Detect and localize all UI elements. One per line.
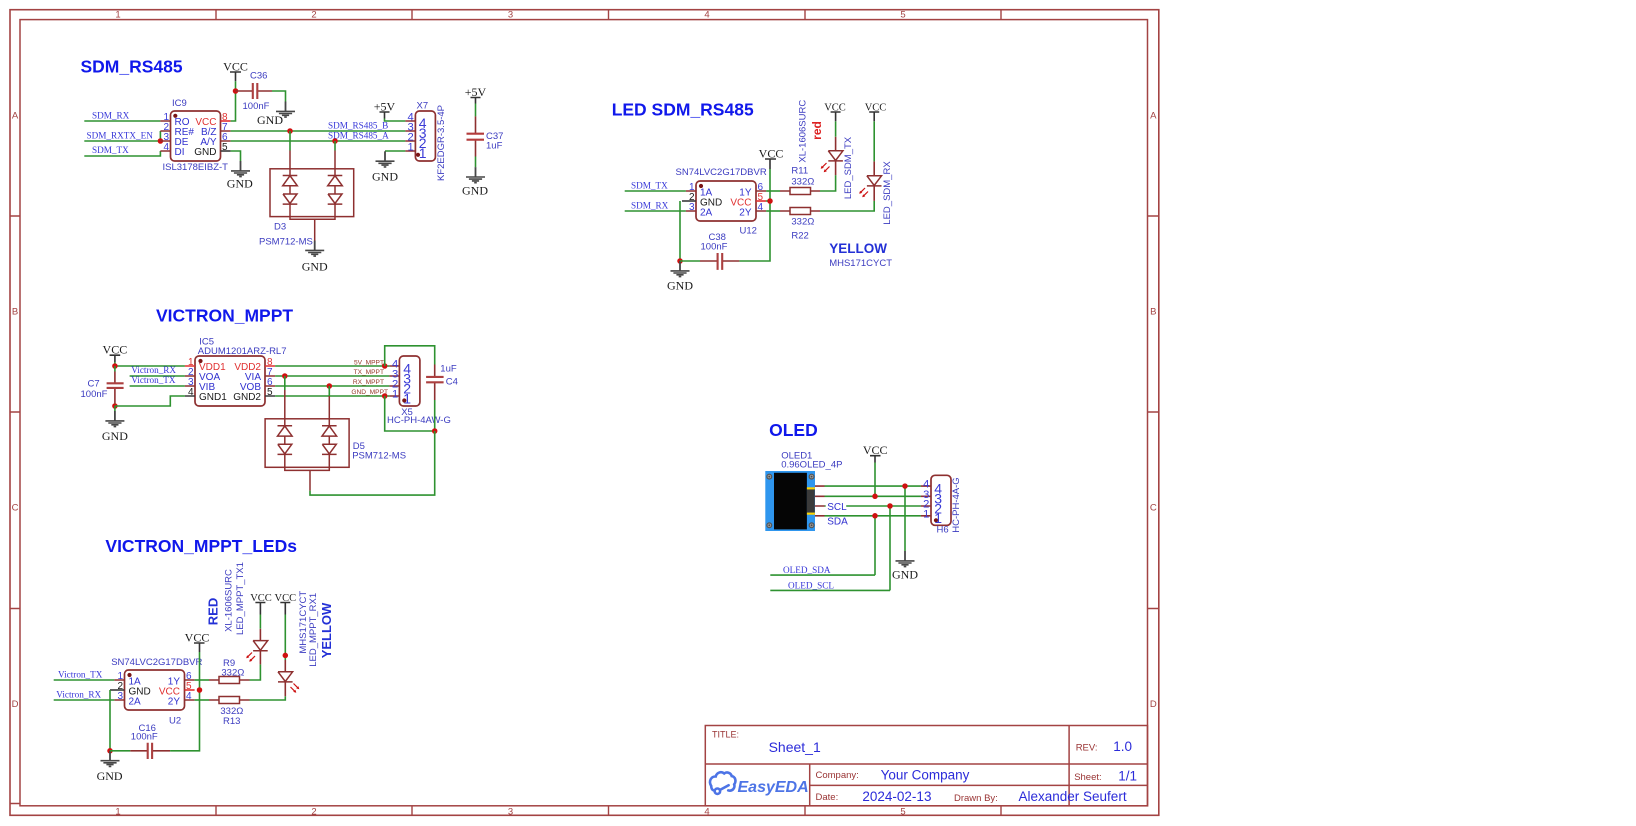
svg-text:1: 1 (403, 390, 411, 406)
wire D5 to gnd loop (310, 431, 435, 495)
svg-text:1/1: 1/1 (1118, 768, 1137, 783)
resistor R11 (780, 188, 820, 195)
svg-text:1: 1 (115, 10, 120, 21)
wire VCC to IC5 pin1 (115, 362, 185, 366)
svg-text:3: 3 (508, 807, 513, 818)
power VCC above LED2 (865, 103, 887, 122)
U12 pin names (700, 187, 752, 218)
ground C7 (102, 406, 128, 443)
svg-text:Victron_TX: Victron_TX (131, 375, 176, 385)
svg-text:Victron_RX: Victron_RX (131, 365, 176, 375)
svg-text:Your Company: Your Company (881, 767, 970, 782)
resistor R13 (209, 697, 250, 704)
wire 2Y to R13 (195, 699, 209, 701)
svg-text:GND: GND (257, 113, 283, 127)
wire OLED_SDA (770, 574, 875, 576)
svg-text:GND: GND (892, 568, 918, 582)
svg-text:DI: DI (175, 147, 185, 158)
svg-text:SDM_TX: SDM_TX (631, 181, 668, 191)
power VCC OLED (863, 443, 888, 463)
svg-text:C4: C4 (446, 377, 458, 388)
ground OLED (892, 551, 918, 582)
svg-text:100nF: 100nF (701, 242, 728, 253)
svg-text:SN74LVC2G17DBVR: SN74LVC2G17DBVR (111, 657, 202, 668)
U2 pin numbers (117, 671, 192, 702)
svg-text:Drawn By:: Drawn By: (954, 793, 998, 804)
svg-text:5: 5 (900, 10, 905, 21)
svg-text:100nF: 100nF (131, 732, 158, 743)
junction TX/D5 (282, 373, 288, 379)
U2 pin names (129, 676, 181, 707)
EasyEDA logo cloud (710, 772, 735, 794)
junction RX/D5 (327, 383, 333, 389)
ground X7 pin1 (372, 151, 398, 183)
power VCC above LED1 (824, 103, 846, 122)
net label SCL (826, 502, 847, 514)
svg-text:IC9: IC9 (172, 98, 187, 109)
ground C36 (257, 102, 295, 128)
wire R22 to LED2 (820, 201, 874, 211)
junction at IC9 pin3 (158, 138, 164, 144)
svg-text:REV:: REV: (1076, 743, 1098, 754)
svg-text:Victron_TX: Victron_TX (58, 670, 103, 680)
svg-text:X7: X7 (417, 101, 429, 112)
H6 pin numbers inside (934, 480, 942, 526)
svg-text:LED SDM_RS485: LED SDM_RS485 (612, 100, 754, 120)
outer border frame (10, 10, 1159, 816)
wire SDM_RXTX_EN (84, 140, 160, 142)
power +5V above X7 (374, 100, 396, 119)
ground IC9 pin5 (227, 161, 253, 191)
wire C4 to GND_MPPT (385, 396, 435, 431)
wire OLED pin3 row (825, 495, 921, 497)
svg-text:B: B (1150, 307, 1156, 318)
junction U2 gnd (107, 748, 113, 754)
ground U12 (667, 261, 693, 293)
power VCC above IC9 (223, 60, 248, 82)
wire GND vertical (904, 486, 906, 551)
wire SDM_RX to U12 (625, 210, 686, 212)
LED LED_SDM_RX MHS171CYCT (859, 161, 881, 201)
junction SDA row1 (872, 513, 878, 519)
svg-text:4: 4 (163, 142, 169, 153)
wire +5V to X7 pin4 (385, 119, 406, 122)
svg-text:5V_MPPT: 5V_MPPT (354, 359, 384, 366)
IC IC9 body ISL3178EIBZ-T (160, 111, 230, 161)
svg-text:LED_SDM_RX: LED_SDM_RX (882, 161, 893, 225)
wire SDM_RS485_A (231, 140, 406, 142)
svg-text:SDM_RXTX_EN: SDM_RXTX_EN (87, 131, 154, 141)
svg-text:GND: GND (194, 147, 216, 158)
svg-text:GND: GND (667, 279, 693, 293)
ground C37 (462, 167, 488, 197)
svg-text:GND: GND (227, 177, 253, 191)
diode D3 PSM712-MS TVS array (270, 151, 354, 241)
wire 5V to C4 (385, 346, 435, 366)
IC9 pin numbers (163, 112, 228, 153)
svg-text:2Y: 2Y (168, 696, 181, 707)
svg-text:MHS171CYCT: MHS171CYCT (829, 258, 892, 269)
capacitor C4 (426, 365, 444, 401)
IC U12 body (682, 181, 766, 221)
IC U2 body (110, 670, 195, 710)
svg-text:HC-PH-4AW-G: HC-PH-4AW-G (387, 415, 451, 426)
wire LED2 to VCC (284, 615, 286, 661)
capacitor C7 (107, 366, 124, 406)
wire D3 branch A (334, 141, 336, 151)
junction 5V/C4 (382, 363, 388, 369)
svg-text:4: 4 (758, 202, 764, 213)
resistor R22 (780, 208, 820, 215)
resistor R9 (209, 677, 250, 684)
svg-text:Victron_RX: Victron_RX (56, 690, 101, 700)
svg-text:A: A (12, 111, 19, 122)
IC5 pin names (199, 362, 261, 403)
power VCC above U12 (759, 147, 784, 170)
svg-text:C: C (12, 503, 19, 514)
title block frame (705, 726, 1147, 806)
svg-text:2024-02-13: 2024-02-13 (862, 789, 931, 804)
IC IC5 body (185, 356, 275, 406)
svg-text:SCL: SCL (827, 502, 847, 513)
junction C7/GND1 (112, 403, 118, 409)
wire R13 to LED2 (250, 696, 286, 700)
wire VCC to IC9 pin8 (231, 81, 236, 121)
svg-text:VICTRON_MPPT: VICTRON_MPPT (156, 305, 293, 325)
junction above LED2 (283, 653, 289, 659)
svg-text:SDM_RS485_A: SDM_RS485_A (328, 131, 389, 141)
wire OLED pin4 row (825, 485, 921, 487)
wire X7 pin1 to ground (385, 150, 405, 152)
wire C37 to ground (475, 157, 477, 168)
svg-text:SDM_TX: SDM_TX (92, 145, 129, 155)
svg-text:C7: C7 (88, 379, 100, 390)
svg-text:SN74LVC2G17DBVR: SN74LVC2G17DBVR (676, 167, 767, 178)
wire SDM_RS485_B (231, 130, 406, 132)
svg-text:LED_MPPT_TX1: LED_MPPT_TX1 (235, 562, 246, 635)
svg-text:OLED: OLED (769, 420, 818, 440)
ground U2 (97, 751, 123, 783)
svg-text:TX_MPPT: TX_MPPT (354, 369, 384, 376)
svg-text:GND: GND (302, 260, 328, 274)
svg-text:YELLOW: YELLOW (319, 602, 334, 658)
svg-text:SDM_RS485: SDM_RS485 (81, 57, 183, 77)
LED LED_SDM_TX XL-1606SURC (821, 137, 843, 175)
wire pin2-pin3 tie (159, 131, 161, 141)
svg-text:GND1: GND1 (199, 392, 227, 403)
LED LED_MPPT_TX1 XL-1606SURC (246, 629, 267, 665)
svg-text:OLED_SCL: OLED_SCL (788, 581, 834, 591)
svg-text:ISL3178EIBZ-T: ISL3178EIBZ-T (163, 162, 229, 173)
power VCC left of IC5 (103, 343, 128, 363)
svg-text:2: 2 (311, 10, 316, 21)
svg-text:3: 3 (689, 202, 695, 213)
svg-text:R22: R22 (791, 230, 808, 241)
junction GND/C4 (382, 393, 388, 399)
svg-text:YELLOW: YELLOW (829, 241, 887, 256)
power VCC above LED2 (275, 593, 297, 615)
svg-text:VICTRON_MPPT_LEDs: VICTRON_MPPT_LEDs (105, 536, 297, 556)
wire OLED pin1 row SDA (825, 515, 921, 517)
wire R9 to LED1 (250, 664, 261, 680)
wire GND_MPPT (275, 395, 389, 397)
svg-text:LED_SDM_TX: LED_SDM_TX (843, 136, 854, 199)
svg-text:VCC: VCC (103, 343, 128, 357)
svg-text:XL-1606SURC: XL-1606SURC (798, 100, 809, 163)
svg-text:Sheet:: Sheet: (1074, 772, 1101, 783)
IC9 pin names (175, 117, 217, 158)
capacitor C16 (110, 743, 170, 759)
capacitor C37 (467, 116, 485, 156)
X7 pin numbers outside (407, 111, 413, 153)
svg-text:332Ω: 332Ω (791, 177, 814, 188)
svg-text:GND: GND (102, 429, 128, 443)
wire Victron_TX to U2 (54, 679, 115, 681)
svg-text:B: B (12, 307, 18, 318)
wire TX_MPPT (275, 375, 389, 377)
svg-text:2A: 2A (129, 696, 142, 707)
svg-text:KF2EDGR-3.5-4P: KF2EDGR-3.5-4P (436, 105, 447, 181)
junction SCL row2 (887, 503, 893, 509)
junction U2 VCC (197, 687, 203, 693)
connector X5 body (389, 356, 420, 406)
IC5 pin numbers (188, 357, 273, 398)
svg-text:4: 4 (186, 691, 192, 702)
connector H6 body (921, 475, 951, 525)
svg-text:OLED_SDA: OLED_SDA (783, 565, 831, 575)
wire 1Y to R9 (195, 679, 209, 681)
svg-text:R13: R13 (223, 716, 240, 727)
svg-text:XL-1606SURC: XL-1606SURC (223, 569, 234, 632)
wire C36 to ground (272, 91, 286, 102)
LED LED_MPPT_RX1 MHS171CYCT (278, 660, 299, 696)
wire +5V to C37 (475, 104, 477, 117)
svg-text:U12: U12 (740, 226, 757, 237)
frame ticks (10, 10, 1159, 816)
svg-text:A: A (1150, 111, 1157, 122)
power VCC above U2 (185, 631, 210, 653)
power +5V above C37 (465, 85, 487, 104)
wire LED1 to VCC (259, 615, 261, 629)
svg-text:GND: GND (97, 769, 123, 783)
svg-text:5: 5 (900, 807, 905, 818)
junction U12 gnd (677, 258, 683, 264)
capacitor C36 (236, 83, 273, 99)
svg-text:C: C (1150, 503, 1157, 514)
wire R11 to LED1 (820, 175, 836, 191)
ground D3 (302, 241, 328, 274)
svg-text:1: 1 (392, 389, 398, 401)
svg-text:RX_MPPT: RX_MPPT (353, 379, 384, 386)
wire D5 branch RX (328, 386, 330, 396)
junction B/D3 (287, 128, 293, 134)
svg-text:2Y: 2Y (739, 207, 752, 218)
svg-text:4: 4 (188, 387, 194, 398)
svg-text:100nF: 100nF (243, 101, 270, 112)
wire D5 branch TX (284, 376, 286, 390)
wire Victron_TX (130, 385, 185, 387)
svg-text:SDM_RX: SDM_RX (92, 111, 130, 121)
svg-text:H6: H6 (937, 525, 949, 536)
wire SDA vertical (874, 516, 876, 575)
svg-text:U2: U2 (169, 716, 181, 727)
svg-text:1uF: 1uF (486, 141, 503, 152)
wire C38 to VCC rail (739, 169, 770, 261)
junction GND row4 (902, 483, 908, 489)
svg-text:5: 5 (267, 387, 273, 398)
wire LED2 to VCC (873, 121, 875, 161)
svg-text:3: 3 (508, 10, 513, 21)
svg-text:GND: GND (462, 184, 488, 198)
capacitor C38 (680, 253, 739, 270)
wire D3 branch B (289, 131, 291, 151)
svg-text:LED_MPPT_RX1: LED_MPPT_RX1 (308, 593, 319, 667)
svg-text:0.96OLED_4P: 0.96OLED_4P (781, 460, 842, 471)
svg-text:1.0: 1.0 (1113, 739, 1132, 754)
svg-text:3: 3 (117, 691, 123, 702)
svg-text:1: 1 (115, 807, 120, 818)
U12 pin numbers (689, 182, 764, 213)
junction A/D3 (332, 138, 338, 144)
svg-text:1: 1 (419, 145, 427, 161)
junction U12 VCC (767, 198, 773, 204)
wire 1Y to R11 (766, 190, 780, 192)
svg-text:332Ω: 332Ω (791, 216, 814, 227)
OLED1 display module (765, 471, 824, 531)
wire OLED_SCL (770, 589, 890, 591)
svg-text:1: 1 (407, 141, 413, 153)
svg-text:1uF: 1uF (440, 364, 457, 375)
diode D5 PSM712-MS TVS array (265, 390, 349, 491)
wire OLED pin2 row SCL (825, 505, 921, 507)
svg-text:332Ω: 332Ω (221, 667, 244, 678)
wire SDM_RX (84, 120, 160, 122)
wire Victron_RX (130, 375, 185, 377)
svg-text:Company:: Company: (816, 770, 859, 781)
wire C16 to VCC rail (170, 652, 199, 751)
X5 pin numbers outside (392, 359, 398, 401)
svg-text:D3: D3 (274, 222, 286, 233)
svg-text:RED: RED (206, 598, 221, 625)
svg-text:SDM_RX: SDM_RX (631, 201, 669, 211)
svg-text:PSM712-MS: PSM712-MS (259, 237, 313, 248)
svg-text:4: 4 (704, 10, 709, 21)
svg-text:100nF: 100nF (81, 389, 108, 400)
svg-text:D: D (12, 699, 19, 710)
junction VCC row3 (872, 494, 878, 500)
svg-text:2: 2 (311, 807, 316, 818)
junction C4/D5 gnd (432, 428, 438, 434)
wire U2 GND pin down (109, 690, 111, 751)
svg-text:4: 4 (704, 807, 709, 818)
wire LED1 to VCC (835, 121, 837, 136)
svg-text:D: D (1150, 699, 1157, 710)
wire U12 pin5 to VCC rail (766, 200, 770, 202)
wire GND1 return (115, 396, 185, 406)
X7 pin numbers inside (419, 115, 427, 161)
wire Victron_RX to U2 (54, 699, 115, 701)
svg-text:HC-PH-4A-G: HC-PH-4A-G (951, 477, 962, 532)
wire SCL vertical (889, 506, 891, 590)
wire 5V_MPPT (275, 365, 389, 367)
wire U12 GND pin down (679, 201, 681, 261)
svg-text:SDM_RS485_B: SDM_RS485_B (328, 121, 388, 131)
wire 2Y to R22 (766, 210, 780, 212)
svg-text:EasyEDA: EasyEDA (738, 779, 809, 796)
svg-text:Date:: Date: (816, 792, 839, 803)
junction VCC/C36 (233, 88, 239, 94)
power VCC above LED1 (250, 593, 272, 615)
wire IC9 pin5 to ground (231, 151, 241, 161)
svg-text:VCC: VCC (863, 443, 888, 457)
H6 pin numbers outside (923, 479, 929, 521)
svg-text:TITLE:: TITLE: (712, 729, 739, 739)
svg-text:red: red (810, 121, 824, 140)
svg-text:PSM712-MS: PSM712-MS (352, 450, 406, 461)
inner border frame (20, 20, 1148, 806)
svg-text:GND2: GND2 (233, 392, 261, 403)
svg-text:Sheet_1: Sheet_1 (769, 739, 821, 755)
svg-text:1: 1 (923, 508, 929, 520)
wire RX_MPPT (275, 385, 389, 387)
X5 pin numbers inside (403, 360, 411, 406)
wire VCC vertical (874, 463, 876, 497)
wire SDM_TX to U12 (625, 190, 686, 192)
frame column labels top (12, 10, 1158, 818)
svg-text:SDA: SDA (827, 517, 848, 528)
svg-text:C36: C36 (250, 70, 267, 81)
junction VCC/C7 (112, 363, 118, 369)
wire SDM_TX (84, 151, 160, 156)
svg-text:GND: GND (372, 170, 398, 184)
svg-text:5: 5 (222, 142, 228, 153)
svg-text:2A: 2A (700, 207, 713, 218)
svg-text:R11: R11 (791, 165, 808, 176)
svg-text:Alexander Seufert: Alexander Seufert (1019, 789, 1127, 804)
connector X7 KF2EDGR-3.5-4P (405, 111, 435, 161)
